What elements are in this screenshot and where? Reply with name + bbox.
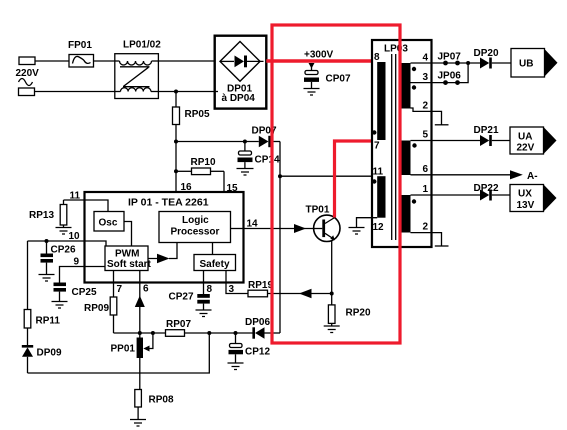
resistor RP05 <box>173 92 180 142</box>
node RP10 branch <box>174 169 178 173</box>
node pin6/PP01 <box>138 331 142 335</box>
bridge rectifier DP01 a DP04 <box>215 36 267 109</box>
transistor TP01 <box>314 215 340 241</box>
wire filter to bridge (L) <box>158 60 220 62</box>
node dot sec 5 <box>412 143 416 147</box>
transformer LP03 box <box>372 40 432 247</box>
wire pin2a to ground <box>411 108 442 125</box>
svg-text:RP13: RP13 <box>29 210 54 221</box>
svg-text:6: 6 <box>143 284 149 295</box>
wire filter to bridge (N) <box>158 91 214 93</box>
svg-text:Soft start: Soft start <box>107 259 152 270</box>
block Logic Processor <box>159 212 231 243</box>
ground below RP08 <box>130 420 146 427</box>
svg-text:+300V: +300V <box>304 50 334 61</box>
svg-text:LP03: LP03 <box>384 44 408 55</box>
resistor RP13 <box>60 200 84 228</box>
svg-text:RP10: RP10 <box>191 157 216 168</box>
svg-text:RP20: RP20 <box>346 308 371 319</box>
node CP07 tap <box>309 63 315 69</box>
resistor RP09 <box>110 283 117 334</box>
ground sec pin2a <box>435 124 449 126</box>
ground below CP26 <box>39 275 55 282</box>
winding primary 8-7 <box>377 62 385 140</box>
wire PWM to Logic with arrow <box>148 243 177 259</box>
winding secondary 1-2 <box>402 195 411 233</box>
svg-text:1: 1 <box>423 184 429 195</box>
node JP junction <box>466 61 470 65</box>
svg-text:RP07: RP07 <box>166 319 191 330</box>
ground sec pin2b <box>435 245 449 247</box>
node emitter/RP20 <box>330 292 334 296</box>
svg-text:2: 2 <box>423 101 429 112</box>
capacitor CP07 <box>304 64 319 89</box>
svg-text:8: 8 <box>374 52 380 63</box>
wire collector red riser <box>335 141 378 218</box>
svg-text:FP01: FP01 <box>68 40 92 51</box>
wire mains-L to fuse <box>35 60 69 62</box>
ground below CP25 <box>52 302 68 309</box>
svg-text:220V: 220V <box>16 68 40 79</box>
svg-text:JP06: JP06 <box>438 71 462 82</box>
connector UX 13V <box>510 185 557 212</box>
wire pin3 to RP19 <box>226 283 248 294</box>
ground below RP20 <box>324 326 340 333</box>
wire fuse to filter <box>94 60 115 62</box>
mains terminal upper <box>19 57 35 65</box>
fuse FP01 <box>69 55 94 68</box>
ground below CP27 <box>196 310 212 317</box>
svg-text:LP01/02: LP01/02 <box>123 40 161 51</box>
wire pin1 to DP22 <box>411 194 481 196</box>
arrow A- <box>510 170 523 179</box>
svg-text:DP22: DP22 <box>474 183 499 194</box>
resistor RP19 <box>248 290 268 297</box>
node RP05/DP07 junction <box>174 140 178 144</box>
winding primary 11-12 <box>377 176 385 218</box>
wire Safety to pin3 <box>225 271 227 283</box>
svg-text:Logic: Logic <box>182 215 209 226</box>
svg-text:7: 7 <box>374 141 380 152</box>
wire emitter down <box>331 241 333 294</box>
svg-text:7: 7 <box>117 284 123 295</box>
diode DP06 <box>252 327 280 338</box>
wire bottom rail DP09 to riser <box>28 333 210 373</box>
jumper JP06 <box>443 80 460 85</box>
svg-text:CP12: CP12 <box>245 347 270 358</box>
wire down to IC pin 16 <box>175 142 177 193</box>
diode DP20 <box>480 58 511 69</box>
wire pin12 to ground <box>357 218 378 228</box>
wire Safety to pin8 <box>203 271 205 283</box>
wire node to LP03 pin 11 <box>280 175 378 177</box>
node dot pin7 side <box>372 130 376 134</box>
node dot sec 1 <box>412 199 416 203</box>
svg-text:5: 5 <box>423 130 429 141</box>
wire pin2b to ground <box>411 233 442 246</box>
svg-text:DP21: DP21 <box>474 125 499 136</box>
svg-text:12: 12 <box>373 222 385 233</box>
node pin11 branch <box>278 174 282 178</box>
resistor RP08 <box>135 390 142 420</box>
svg-text:CP27: CP27 <box>169 292 194 303</box>
svg-text:22V: 22V <box>517 143 535 154</box>
diode DP22 <box>480 190 510 201</box>
capacitor CP27 <box>197 283 210 311</box>
wire pin11 internal to Osc <box>85 200 109 212</box>
svg-text:3: 3 <box>423 72 429 83</box>
svg-text:2: 2 <box>423 222 429 233</box>
svg-text:PP01: PP01 <box>111 344 136 355</box>
svg-text:CP07: CP07 <box>326 74 351 85</box>
winding secondary 4-3-2 <box>402 63 411 109</box>
svg-text:UB: UB <box>519 59 533 70</box>
svg-text:DP09: DP09 <box>37 348 62 359</box>
svg-text:Processor: Processor <box>171 227 220 238</box>
capacitor CP12 <box>229 333 244 363</box>
wire RP19 to emitter node with left arrow <box>268 289 332 299</box>
svg-text:RP08: RP08 <box>149 395 174 406</box>
svg-text:RP11: RP11 <box>36 316 61 327</box>
node dot sec 4 <box>412 67 416 71</box>
ground below CP07 <box>304 89 320 96</box>
capacitor CP14 <box>238 142 253 169</box>
op-amp IC IP01 TEA2261 box <box>85 192 244 283</box>
svg-text:UA: UA <box>518 132 532 143</box>
diode DP09 <box>22 345 33 373</box>
wire mains-N to filter <box>35 91 115 93</box>
resistor RP10 <box>176 168 224 175</box>
wire RP10 down to IC pin 15 <box>223 171 225 192</box>
wire Logic to Safety <box>212 243 214 255</box>
svg-text:CP26: CP26 <box>51 245 76 256</box>
resistor RP07 <box>166 330 185 337</box>
wire Osc to PWM internal <box>124 222 132 247</box>
wire DP07 cathode down to DP06 node <box>279 142 281 334</box>
svg-text:RP09: RP09 <box>84 303 109 314</box>
wire pin6 with arrow up <box>135 283 145 334</box>
node CP12 tap <box>234 331 238 335</box>
node dot pin11 side <box>372 179 376 183</box>
svg-text:TP01: TP01 <box>306 205 330 216</box>
node dot sec 3 <box>412 85 416 89</box>
svg-text:8: 8 <box>207 284 213 295</box>
block Safety <box>194 255 236 271</box>
mains sine symbol <box>19 79 33 86</box>
wire pin9 <box>60 267 85 283</box>
node riser junction <box>207 331 211 335</box>
svg-text:6: 6 <box>423 164 429 175</box>
svg-text:DP06: DP06 <box>245 317 270 328</box>
wire feedback bus <box>114 332 254 334</box>
wire junction to CP14 node <box>176 141 259 143</box>
capacitor CP26 <box>41 241 54 275</box>
svg-text:Osc: Osc <box>99 218 118 229</box>
svg-text:IP 01 - TEA 2261: IP 01 - TEA 2261 <box>128 197 209 209</box>
jumper JP07 <box>443 61 460 66</box>
resistor RP20 <box>328 294 335 327</box>
ground below CP14 <box>237 169 254 176</box>
diode DP07 <box>259 136 280 147</box>
wire bottom AC into bridge <box>215 91 218 93</box>
svg-text:CP25: CP25 <box>72 287 97 298</box>
node PP01 wiper tap <box>151 331 155 335</box>
svg-text:RP05: RP05 <box>185 109 210 120</box>
wire PWM to pin6 <box>139 271 141 283</box>
node CP14 tap <box>243 140 247 144</box>
svg-text:DP20: DP20 <box>474 48 499 59</box>
connector UA 22V <box>510 127 557 154</box>
wire +300V rail (red) bridge to LP03 pin 8 <box>266 59 379 63</box>
wire PWM to pin7 <box>113 271 115 283</box>
node RP05 tap on N wire <box>174 90 178 94</box>
svg-text:13V: 13V <box>517 200 535 211</box>
wire pin3 to junction <box>411 63 469 83</box>
node CP26 tap <box>45 239 49 243</box>
wire pin10 internal to PWM <box>85 241 107 246</box>
svg-text:11: 11 <box>373 167 384 178</box>
highlight red box <box>272 25 400 343</box>
diode DP21 <box>480 135 510 146</box>
wire pin5 to DP21 <box>411 140 481 142</box>
svg-text:Safety: Safety <box>200 259 230 270</box>
winding secondary 5-6 <box>402 141 411 176</box>
wire left rail down to RP11 <box>27 241 29 310</box>
block Osc <box>94 212 124 232</box>
svg-text:A-: A- <box>527 171 538 182</box>
line filter LP01/02 <box>115 54 159 99</box>
svg-text:RP19: RP19 <box>248 280 273 291</box>
wire pin4 to DP20 <box>411 62 481 64</box>
svg-text:PWM: PWM <box>115 249 139 260</box>
ground LP03 pin12 <box>349 228 365 235</box>
potentiometer PP01 <box>137 333 153 390</box>
resistor RP11 <box>24 310 31 346</box>
wire pin10 to left rail <box>28 240 85 242</box>
svg-text:UX: UX <box>518 189 532 200</box>
connector UB <box>511 49 558 78</box>
block PWM Soft start <box>105 246 148 271</box>
transformer core lines <box>391 54 393 240</box>
ground below RP13 <box>56 228 72 235</box>
wire pin14 to TP01 base with arrow <box>244 224 315 233</box>
mains terminal lower <box>19 88 35 96</box>
wire pin9 internal to PWM <box>85 266 106 268</box>
wire pin6 to A- <box>411 174 511 176</box>
wire Logic to pin14 <box>231 228 244 230</box>
ground below CP12 <box>228 363 244 370</box>
capacitor CP25 <box>54 283 67 302</box>
svg-text:à DP04: à DP04 <box>222 93 256 104</box>
svg-text:JP07: JP07 <box>438 52 462 63</box>
svg-text:CP14: CP14 <box>255 155 280 166</box>
svg-text:4: 4 <box>423 53 429 64</box>
